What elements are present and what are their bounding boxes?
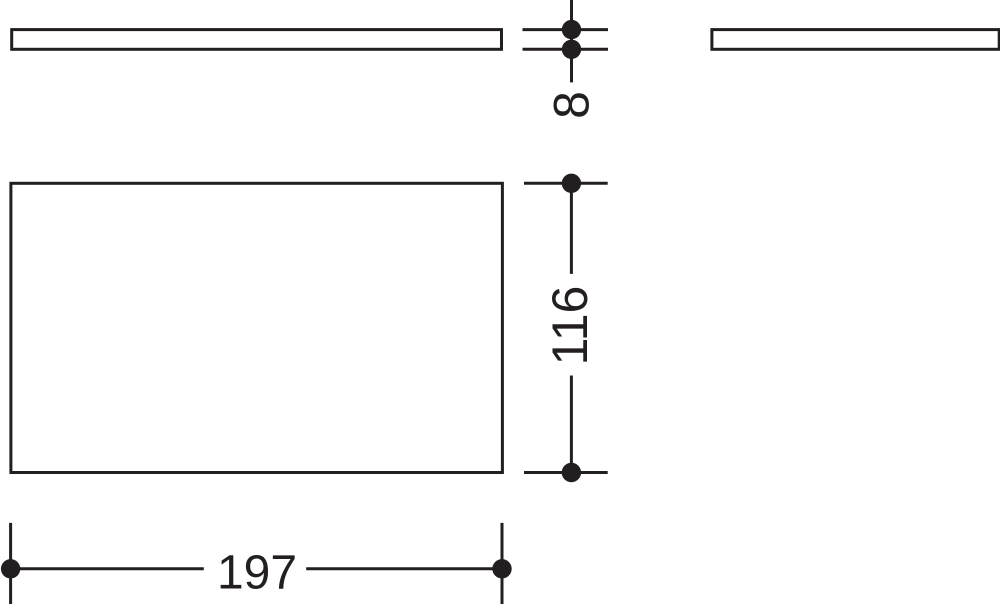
dim 197: extension tick left [9,523,12,604]
dim 8: dot bottom [562,40,581,59]
plate side view right (116 deep, 8 thick) [712,30,999,50]
dim 116: extension tick top [524,182,608,185]
dim 116: dimension line upper segment [570,183,573,274]
dim 116: dot top [562,174,581,193]
dim 197: dot left [1,559,20,578]
dim 197: extension tick right [501,523,504,604]
plate front view (197 x 116) [11,183,503,472]
plate side view left (197 wide, 8 thick) [12,30,502,50]
dim 116: extension tick bottom [524,471,608,474]
dim 116: dot bottom [562,463,581,482]
dim 8: dimension line [570,0,573,82]
dim 8: extension tick bottom [523,48,609,51]
svg-text:197: 197 [217,546,297,599]
dim 197: dimension line left segment [11,567,204,570]
svg-text:116: 116 [542,286,598,366]
dim 197: dimension line right segment [306,567,502,570]
dim 197: dot right [492,559,511,578]
svg-text:8: 8 [544,91,600,119]
dim 116: dimension line lower segment [570,376,573,473]
dim 8: extension tick top [523,28,609,31]
dim 8: dot top [562,20,581,39]
